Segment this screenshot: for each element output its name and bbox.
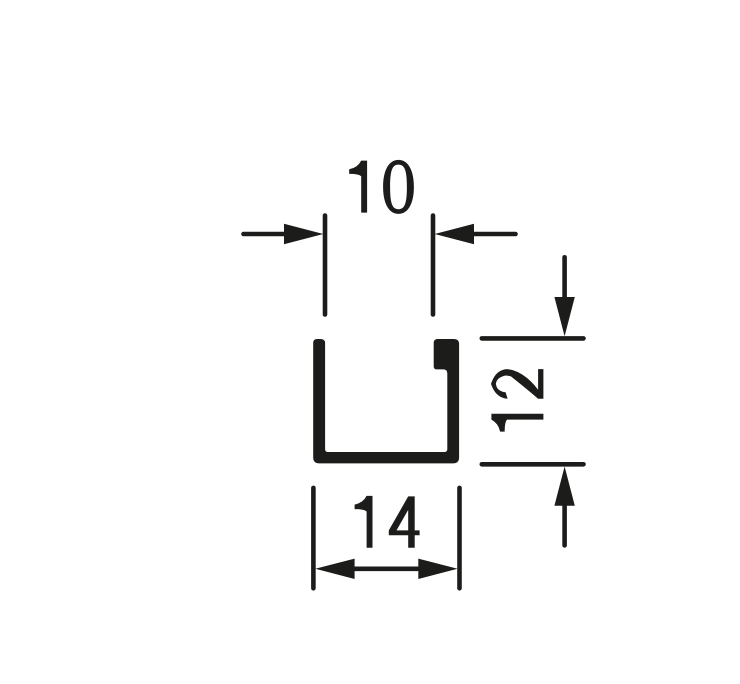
- dimension 14 (bottom, outer width): [313, 488, 459, 588]
- arrowhead left (points right): [284, 224, 323, 244]
- arrowhead left (points left): [315, 559, 354, 579]
- extension line right: [457, 488, 462, 588]
- extension line left: [323, 216, 328, 315]
- dimension 10 (top, inner opening): [244, 216, 516, 315]
- label 12 (rotated): [491, 369, 543, 432]
- U-channel profile cross-section: [313, 339, 459, 463]
- arrowhead right (points right): [418, 559, 457, 579]
- arrowhead right (points left): [435, 224, 474, 244]
- arrow tail top: [562, 257, 567, 302]
- dimension 12 (right, height): [482, 257, 584, 545]
- extension line bottom: [482, 462, 584, 467]
- arrow tail bottom: [562, 501, 567, 545]
- label 10: [349, 160, 414, 214]
- extension line left: [311, 488, 316, 588]
- extension line top: [482, 336, 584, 341]
- label 14: [355, 496, 420, 548]
- arrow tail left: [244, 232, 293, 237]
- extension line right: [431, 216, 436, 315]
- arrowhead down (top): [554, 297, 574, 336]
- arrow tail right: [466, 232, 516, 237]
- arrowhead up (bottom): [554, 467, 574, 506]
- dim line: [350, 566, 423, 571]
